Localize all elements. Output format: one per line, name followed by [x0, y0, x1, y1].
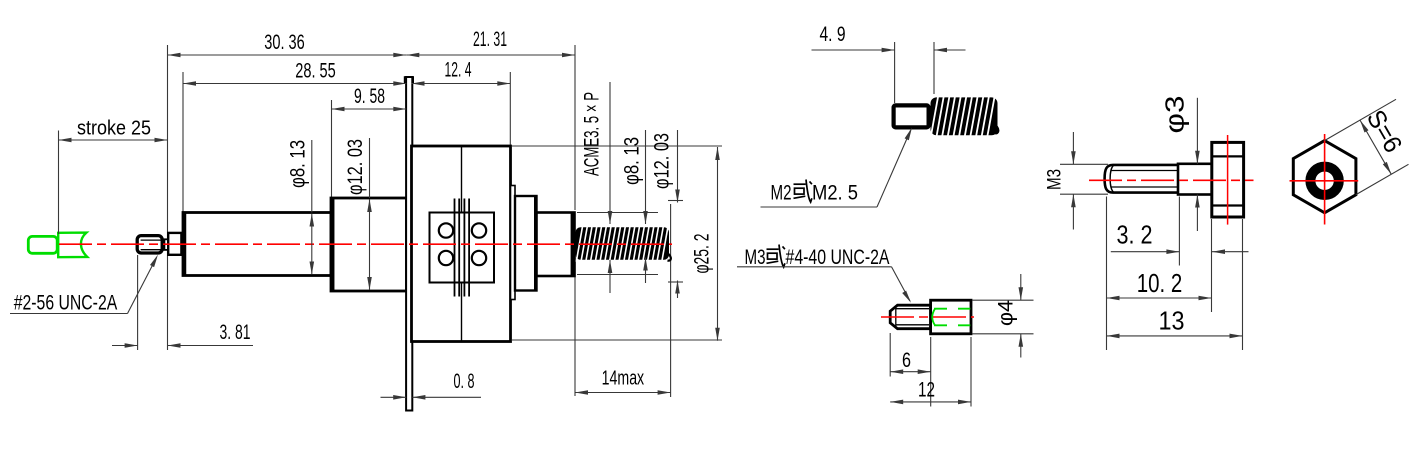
svg-text:30. 36: 30. 36 [264, 30, 305, 54]
svg-text:#4-40 UNC-2A: #4-40 UNC-2A [786, 245, 890, 269]
svg-text:28. 55: 28. 55 [295, 59, 336, 83]
svg-text:M3: M3 [745, 245, 766, 269]
svg-text:φ25. 2: φ25. 2 [690, 234, 714, 274]
svg-text:4. 9: 4. 9 [820, 22, 846, 46]
svg-text:13: 13 [1159, 307, 1185, 335]
svg-text:ACME3. 5 × P: ACME3. 5 × P [580, 92, 604, 176]
svg-text:stroke 25: stroke 25 [77, 117, 151, 140]
svg-text:M2. 5: M2. 5 [812, 180, 858, 204]
svg-text:φ12. 03: φ12. 03 [650, 133, 674, 189]
svg-text:φ8. 13: φ8. 13 [286, 140, 310, 188]
svg-text:12: 12 [918, 378, 935, 402]
svg-text:9. 58: 9. 58 [354, 84, 385, 108]
svg-text:14max: 14max [602, 368, 645, 390]
svg-text:6: 6 [902, 348, 911, 372]
svg-text:M3: M3 [1045, 169, 1066, 190]
svg-text:φ4: φ4 [994, 300, 1018, 326]
svg-text:0. 8: 0. 8 [454, 369, 475, 393]
svg-text:#2-56 UNC-2A: #2-56 UNC-2A [14, 292, 118, 315]
svg-text:3. 2: 3. 2 [1117, 221, 1153, 249]
svg-text:3. 81: 3. 81 [220, 320, 251, 344]
svg-text:φ8. 13: φ8. 13 [620, 137, 644, 185]
svg-text:M2: M2 [771, 180, 792, 204]
svg-text:21. 31: 21. 31 [473, 27, 507, 51]
svg-text:φ12. 03: φ12. 03 [343, 139, 367, 195]
svg-text:10. 2: 10. 2 [1137, 270, 1183, 298]
svg-text:φ3: φ3 [1162, 96, 1190, 134]
svg-text:12. 4: 12. 4 [445, 58, 472, 82]
